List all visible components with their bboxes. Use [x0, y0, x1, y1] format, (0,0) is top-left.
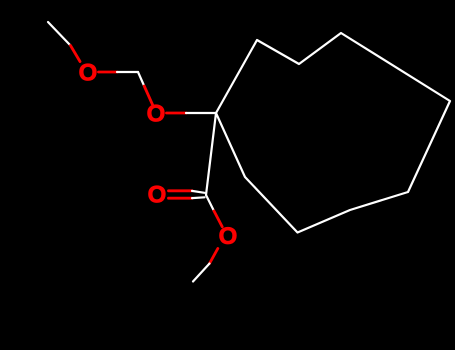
- wire: bond O1-CH2 white half: [117, 71, 138, 73]
- svg-text:O: O: [147, 101, 166, 128]
- carbonyl C=O3 upper line white half: [192, 191, 205, 193]
- carbonyl C=O3 lower line white half: [192, 196, 205, 199]
- wire: bond C(ester)-O4 red half: [214, 211, 222, 227]
- wire: bond CH2-O2 red half: [144, 86, 153, 106]
- svg-text:O: O: [219, 223, 238, 250]
- wire: bond CH3-O1 white half: [48, 22, 71, 46]
- wire: bond CH3-O1 red half: [71, 46, 81, 62]
- wire: bond O4-CH3 red half: [210, 249, 218, 264]
- carbonyl C=O3 lower line red half: [169, 197, 193, 200]
- wire: bond C1-C(ester): [206, 113, 216, 195]
- wire: bond CH2-O2 white half: [138, 72, 144, 86]
- ring macrocycle: [216, 33, 450, 233]
- wire: bond O1-CH2 red half: [99, 71, 118, 74]
- svg-text:O: O: [79, 60, 98, 87]
- wire: bond O2-C1 white half: [186, 112, 216, 114]
- wire: bond O2-C1 red half: [167, 112, 187, 115]
- svg-text:O: O: [148, 182, 167, 209]
- carbonyl C=O3 upper line red half: [169, 189, 193, 192]
- wire: bond O4-CH3 white half: [193, 264, 210, 282]
- wire: bond C(ester)-O4 white half: [206, 195, 214, 211]
